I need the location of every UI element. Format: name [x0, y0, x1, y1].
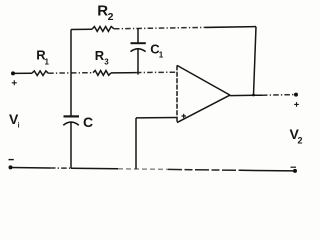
svg-text:3: 3 [104, 57, 109, 66]
svg-text:R: R [95, 48, 105, 63]
svg-text:C: C [83, 114, 93, 130]
svg-text:1: 1 [45, 57, 50, 66]
svg-text:i: i [18, 123, 20, 130]
svg-text:2: 2 [108, 11, 114, 23]
svg-text:2: 2 [298, 136, 303, 146]
svg-text:1: 1 [159, 51, 164, 60]
